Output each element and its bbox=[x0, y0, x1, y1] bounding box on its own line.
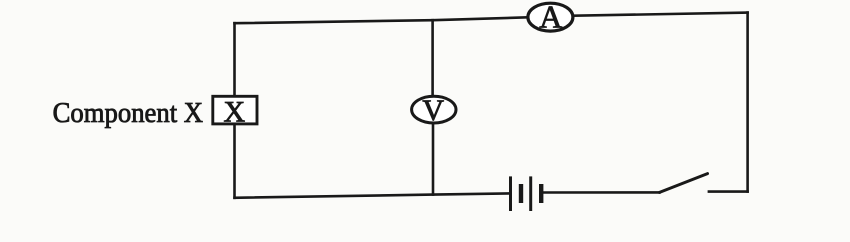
wire voltmeter branch lower segment bbox=[432, 125, 435, 195]
battery short plate 1 bbox=[519, 184, 523, 203]
wire bottom: battery left terminal through junction to bottom-left corner bbox=[235, 193, 510, 197]
switch S1 (open) arm bbox=[660, 174, 708, 193]
svg-text:X: X bbox=[223, 95, 245, 128]
component X box bbox=[213, 95, 257, 128]
ammeter A bbox=[528, 0, 573, 34]
svg-text:V: V bbox=[422, 94, 444, 127]
battery short plate 2 bbox=[539, 184, 543, 203]
svg-text:Component X: Component X bbox=[53, 97, 204, 129]
wire left vertical below component X box bbox=[233, 125, 236, 198]
wire voltmeter branch upper segment bbox=[431, 20, 434, 95]
battery long plate 1 bbox=[509, 176, 512, 211]
svg-text:A: A bbox=[539, 0, 562, 34]
wire right vertical bbox=[746, 13, 749, 192]
wire left vertical above component X box bbox=[233, 23, 236, 95]
wire top: ammeter right terminal to top-right corner bbox=[575, 13, 748, 16]
wire bottom-right corner to switch fixed contact bbox=[709, 190, 748, 193]
wire battery positive terminal to switch pivot bbox=[544, 191, 660, 194]
battery long plate 2 bbox=[529, 176, 532, 211]
voltmeter V bbox=[412, 94, 456, 127]
battery B1 bbox=[511, 176, 542, 211]
wire top: left corner to junction to ammeter left terminal bbox=[235, 17, 527, 23]
